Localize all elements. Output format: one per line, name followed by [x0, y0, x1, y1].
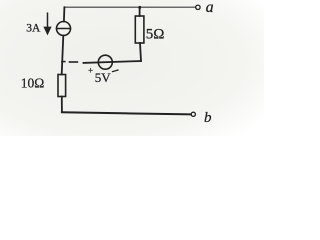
- svg-text:a: a: [206, 0, 214, 16]
- svg-text:5V: 5V: [95, 70, 112, 85]
- svg-text:5Ω: 5Ω: [146, 26, 165, 42]
- svg-text:3A: 3A: [26, 22, 41, 34]
- svg-text:b: b: [204, 110, 212, 126]
- svg-text:+: +: [88, 66, 93, 76]
- svg-text:10Ω: 10Ω: [21, 76, 45, 91]
